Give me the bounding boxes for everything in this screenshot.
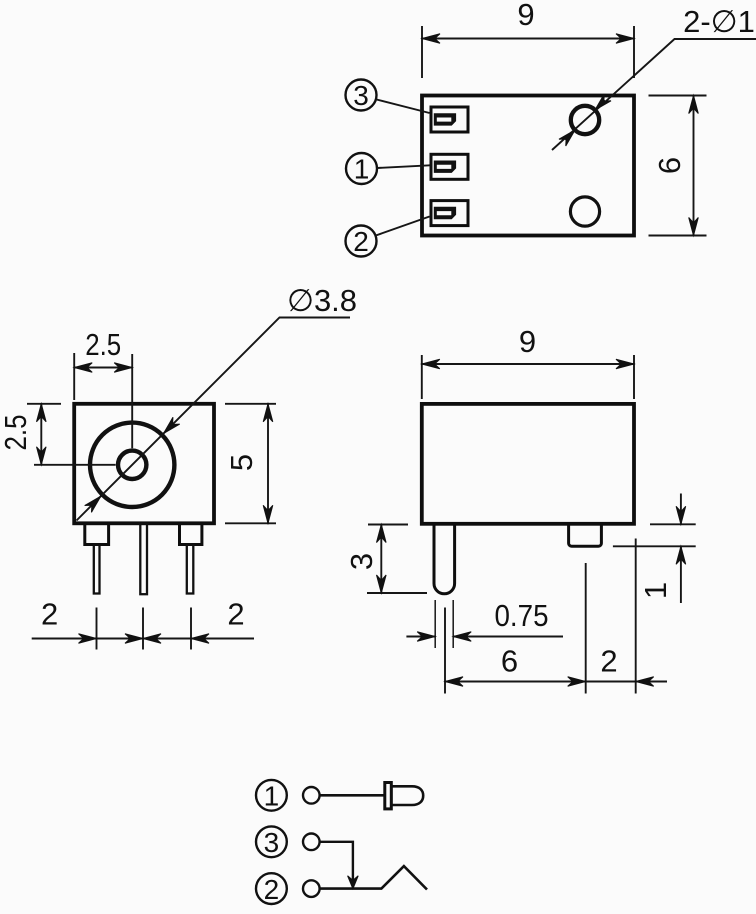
side leg flat pin: [569, 524, 602, 546]
leg middle pin: [140, 523, 147, 594]
lens outer circle phi 3.8: [90, 423, 174, 507]
pin contact 1 (middle): [431, 154, 468, 179]
label balloon 1: [346, 153, 377, 184]
pin contact 3 (top): [431, 107, 468, 132]
dimension 2 / 2 (front legs): [96, 608, 98, 650]
svg-text:1: 1: [354, 154, 370, 185]
svg-text:3: 3: [264, 827, 280, 858]
side view body outline: [422, 404, 634, 524]
pin contact 2 (bottom): [431, 201, 468, 226]
front view body outline: [74, 404, 214, 524]
leg left pin: [94, 545, 100, 594]
svg-text:2: 2: [600, 644, 617, 679]
balloon 2: [256, 873, 287, 904]
dimension 9 (top view width): [421, 26, 423, 78]
centerline horizontal: [34, 464, 116, 466]
svg-text:5: 5: [224, 454, 259, 471]
balloon 3: [256, 826, 287, 857]
leader 2-phi1: [552, 39, 756, 150]
svg-text:9: 9: [517, 0, 534, 32]
LED body: [391, 786, 423, 805]
dimension 2 (side): [635, 539, 637, 694]
svg-text:2: 2: [353, 226, 369, 257]
terminal 2: [303, 880, 320, 897]
hole top (phi 1): [571, 106, 599, 134]
dimension 9 (side view): [421, 355, 423, 399]
dimension 2.5 horizontal: [73, 353, 75, 400]
svg-text:2: 2: [264, 874, 280, 905]
balloon 1: [256, 780, 287, 811]
svg-text:1: 1: [264, 781, 280, 812]
leader 1: [377, 165, 430, 168]
dimension 2.5 vertical: [27, 403, 61, 405]
centerline vertical: [131, 354, 133, 448]
leg left shoulder: [85, 523, 109, 544]
terminal 3: [303, 834, 320, 851]
side leg round pin: [434, 524, 455, 594]
wire pin2 with bent lead: [320, 866, 427, 889]
terminal 1: [303, 787, 320, 804]
dimension 5: [225, 403, 276, 405]
svg-text:2.5: 2.5: [85, 327, 121, 362]
leader 2: [376, 217, 430, 236]
leg right shoulder: [180, 523, 202, 544]
LED flange: [385, 783, 392, 809]
dimension 6: [444, 608, 446, 694]
svg-text:6: 6: [501, 644, 518, 679]
svg-text:2-∅1: 2-∅1: [683, 4, 755, 39]
svg-text:2: 2: [227, 597, 244, 632]
hole bottom (phi 1): [570, 197, 599, 226]
svg-text:9: 9: [519, 324, 536, 359]
lens inner circle: [118, 451, 146, 479]
svg-text:3: 3: [353, 80, 369, 111]
leader phi 3.8: [77, 318, 351, 521]
dimension 3: [368, 524, 408, 526]
svg-text:∅3.8: ∅3.8: [287, 283, 357, 318]
dimension 1: [650, 523, 696, 525]
leg right pin: [187, 545, 194, 594]
svg-text:1: 1: [638, 582, 673, 599]
svg-text:2.5: 2.5: [0, 415, 33, 451]
label balloon 3: [346, 80, 377, 111]
wire pin1: [320, 794, 385, 797]
dimension 0.75: [434, 600, 436, 648]
top view body outline: [422, 96, 634, 236]
label balloon 2: [346, 226, 377, 257]
dimension 6 (top view height): [649, 95, 707, 97]
leader 3: [377, 100, 430, 114]
svg-text:0.75: 0.75: [495, 598, 549, 633]
svg-text:3: 3: [344, 553, 379, 570]
svg-text:2: 2: [41, 597, 58, 632]
wire pin3 with arrow to pin2 wire: [320, 842, 353, 884]
svg-text:6: 6: [652, 157, 687, 174]
